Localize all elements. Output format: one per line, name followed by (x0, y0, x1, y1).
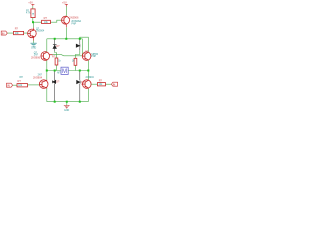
svg-text:GND: GND (31, 48, 36, 50)
svg-text:D?: D? (56, 80, 60, 84)
svg-text:M: M (62, 68, 67, 75)
svg-text:2N3906: 2N3906 (69, 16, 79, 20)
svg-text:R?: R? (15, 27, 19, 31)
svg-text:PNP: PNP (91, 56, 96, 58)
svg-text:IN: IN (7, 84, 10, 88)
svg-text:+5V: +5V (28, 1, 33, 5)
svg-text:2N3904: 2N3904 (36, 31, 45, 33)
svg-text:IN: IN (2, 31, 5, 35)
svg-text:D?: D? (81, 80, 85, 84)
svg-text:+5V: +5V (62, 1, 67, 5)
svg-text:2N3904: 2N3904 (86, 77, 95, 79)
svg-text:2N?: 2N? (34, 55, 39, 57)
svg-text:IN: IN (113, 83, 116, 87)
svg-text:2N?: 2N? (38, 75, 43, 77)
svg-text:Q?: Q? (85, 50, 89, 54)
svg-text:R?: R? (99, 78, 103, 82)
svg-text:R?: R? (52, 54, 56, 58)
svg-text:PNP: PNP (71, 23, 76, 25)
svg-text:D?: D? (56, 44, 60, 48)
svg-text:GND: GND (64, 110, 69, 111)
svg-text:R?: R? (44, 16, 48, 20)
svg-text:R?: R? (18, 79, 22, 83)
